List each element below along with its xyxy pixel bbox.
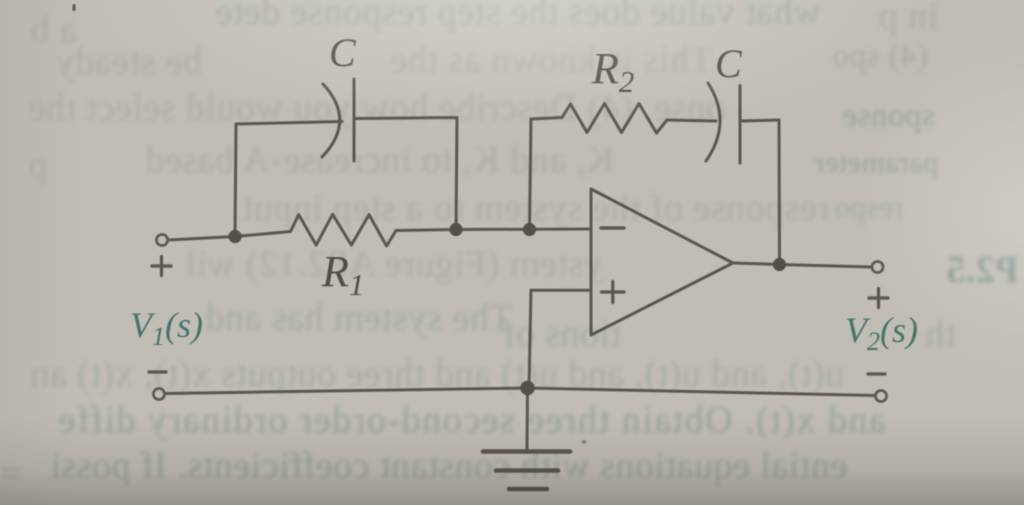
capacitor C1 straight plate — [353, 79, 356, 161]
page speck near ground — [582, 440, 586, 444]
wire: op-amp output to node D to V2 terminal — [733, 263, 872, 267]
resistor R2 — [562, 104, 667, 134]
svg-text:R1: R1 — [321, 247, 364, 302]
plus mark at V2 terminal — [869, 289, 888, 308]
wire: bottom rail V1 lower terminal to node E to V2 lower terminal — [165, 388, 875, 396]
svg-text:V2(s): V2(s) — [845, 310, 918, 356]
wire: node C up to resistor R2 — [530, 118, 563, 230]
capacitor C2 curved plate — [706, 83, 720, 161]
wire: V1 upper terminal to node A — [168, 237, 235, 241]
resistor R1 — [291, 214, 397, 246]
node D junction dot — [773, 258, 786, 271]
wire: resistor R1 to node B — [396, 230, 456, 231]
wire: resistor R2 to capacitor C2 — [667, 120, 716, 121]
input terminal V1 lower open circle — [153, 388, 164, 399]
capacitor C2 straight plate — [739, 86, 742, 164]
capacitor C1 curved plate — [322, 84, 340, 157]
svg-text:C: C — [329, 30, 357, 75]
op-amp U1 minus input symbol — [601, 226, 624, 229]
minus mark at V1 terminal — [149, 370, 166, 373]
node C junction dot — [523, 223, 536, 236]
wire: node A to resistor R1 — [235, 232, 291, 237]
svg-text:C: C — [715, 41, 743, 86]
minus mark at V2 terminal — [868, 372, 885, 375]
wire: node E down to ground — [526, 388, 530, 449]
op-amp U1 plus input symbol — [602, 282, 625, 303]
page speck top left — [73, 4, 76, 11]
plus mark at V1 terminal — [152, 257, 171, 276]
output terminal V2 upper open circle — [872, 261, 883, 272]
svg-text:V1(s): V1(s) — [130, 305, 203, 351]
wire: node B to node C to op-amp inverting input — [456, 228, 591, 232]
op-amp U1 triangle — [591, 189, 733, 335]
input terminal V1 upper open circle — [156, 234, 167, 245]
node B junction dot — [449, 223, 462, 236]
wire: capacitor C1 to node B — [354, 118, 457, 230]
node E junction dot — [520, 381, 534, 395]
node A junction dot — [228, 230, 241, 243]
wire: capacitor C2 down to output node D — [740, 120, 780, 265]
wire: node A up and right to capacitor C1 — [235, 122, 342, 237]
wire: op-amp non-inverting input to ground node E — [529, 290, 591, 388]
ground symbol — [483, 452, 570, 490]
ghost bleed-through text lines (mirrored) — [215, 0, 821, 34]
svg-text:R2: R2 — [591, 44, 634, 99]
output terminal V2 lower open circle — [875, 390, 886, 401]
